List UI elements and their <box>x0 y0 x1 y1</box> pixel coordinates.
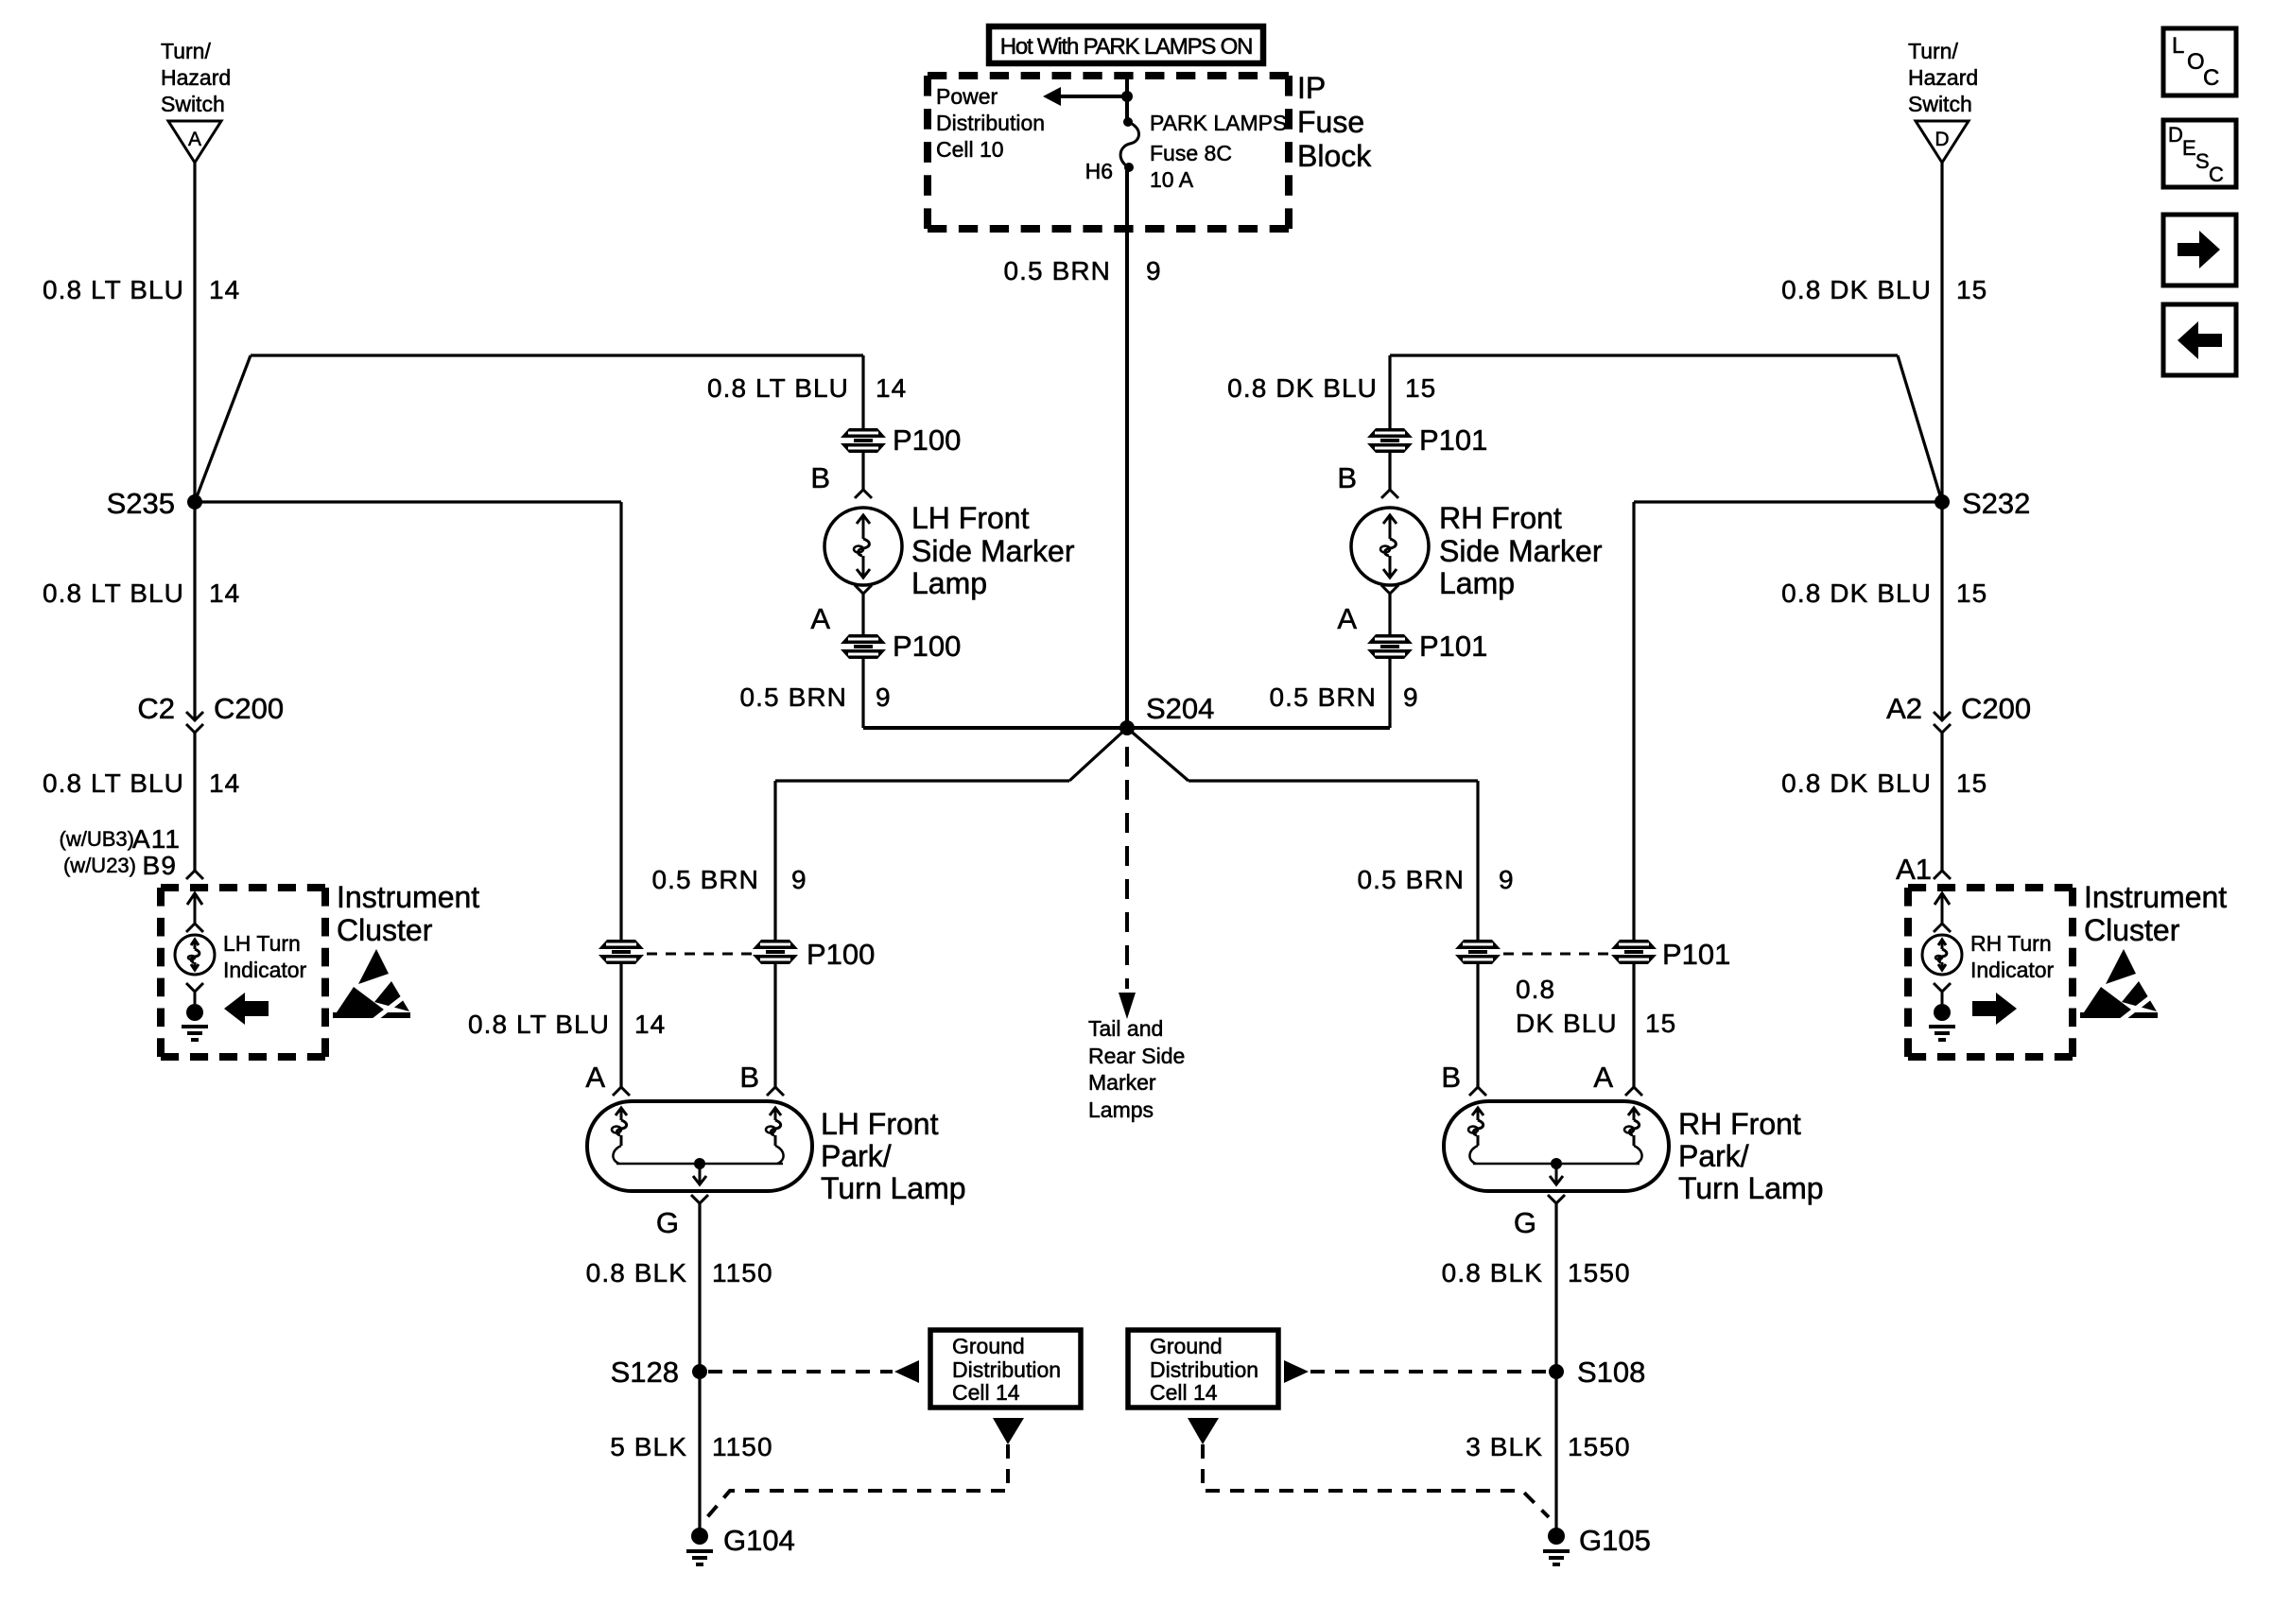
svg-text:15: 15 <box>1645 1009 1676 1038</box>
terminal chevron below indicator (left) <box>186 983 203 992</box>
svg-text:Fuse: Fuse <box>1297 105 1364 139</box>
S128 label <box>611 1356 679 1389</box>
svg-text:0.5 BRN: 0.5 BRN <box>1003 256 1111 285</box>
wire to cluster ground (left) <box>194 992 197 1004</box>
svg-text:G: G <box>656 1206 679 1239</box>
svg-text:Park/: Park/ <box>1678 1139 1749 1173</box>
dashed link: S128 to ground distribution <box>708 1370 893 1373</box>
svg-text:S108: S108 <box>1577 1356 1645 1389</box>
RH park/turn common bus <box>1473 1158 1640 1169</box>
svg-text:Turn/: Turn/ <box>1908 39 1958 63</box>
svg-text:G104: G104 <box>723 1524 795 1557</box>
wire to cluster ground (right) <box>1941 992 1944 1004</box>
svg-text:(w/U23): (w/U23) <box>63 854 136 877</box>
ground G104 <box>686 1528 713 1564</box>
pin chevron A (LH marker) <box>855 585 872 594</box>
splice S108 <box>1549 1364 1564 1379</box>
pin chevron A (LH park/turn) <box>613 1087 630 1096</box>
LH park/turn common bus <box>616 1158 783 1169</box>
svg-text:0.8 DK BLU: 0.8 DK BLU <box>1781 769 1932 798</box>
wire: fuse-block feed from top <box>1125 76 1129 122</box>
RH Front Park/Turn Lamp name <box>1678 1107 1824 1205</box>
svg-text:9: 9 <box>1146 256 1162 285</box>
svg-text:Park/: Park/ <box>821 1139 892 1173</box>
svg-text:1150: 1150 <box>712 1258 773 1287</box>
svg-text:1550: 1550 <box>1568 1258 1631 1287</box>
svg-text:C2: C2 <box>137 692 175 725</box>
lamp: LH Front Park/Turn (housing) <box>587 1101 812 1191</box>
connector C200 pin A2 (right) <box>1934 712 1951 733</box>
wire: P100 to LH park/turn B <box>773 963 776 1087</box>
svg-text:Cell 14: Cell 14 <box>952 1380 1020 1405</box>
S108 label <box>1577 1356 1645 1389</box>
svg-text:9: 9 <box>1403 682 1419 712</box>
P100 label (bottom) <box>893 630 961 663</box>
label: (w/UB3) A11 <box>60 824 181 854</box>
svg-text:1150: 1150 <box>712 1432 773 1461</box>
wire: 0.8 LT BLU 14 below S235 <box>193 502 196 720</box>
wire: S232 left branch to RH park/turn <box>1634 502 1942 940</box>
IP fuse block dashed boundary <box>928 76 1289 229</box>
svg-text:Lamp: Lamp <box>911 566 987 600</box>
svg-text:P100: P100 <box>893 423 961 457</box>
svg-text:0.8 LT BLU: 0.8 LT BLU <box>43 769 184 798</box>
legend box left-arrow <box>2163 304 2236 375</box>
pin G label (RH park/turn) <box>1514 1206 1536 1239</box>
svg-text:Switch: Switch <box>161 92 225 116</box>
wire: 0.8 LT BLU 14 switch A to S235 <box>193 163 196 502</box>
svg-text:1550: 1550 <box>1568 1432 1631 1461</box>
wire: S204 diagonal right <box>1127 728 1189 781</box>
G104 label <box>723 1524 795 1557</box>
RH Front Side Marker Lamp name <box>1439 501 1603 600</box>
svg-text:Side Marker: Side Marker <box>911 534 1075 568</box>
svg-text:S204: S204 <box>1146 692 1214 725</box>
dashed route: left ground box to G104 <box>707 1444 1008 1517</box>
svg-text:Ground: Ground <box>952 1334 1025 1358</box>
svg-text:10 A: 10 A <box>1150 167 1194 192</box>
splice S204 <box>1119 720 1135 735</box>
svg-text:Block: Block <box>1297 139 1372 173</box>
svg-text:Lamps: Lamps <box>1088 1097 1154 1122</box>
wire: 0.8 BLK 1550 RH park/turn G to S108 to G105 <box>1554 1203 1557 1531</box>
svg-text:Cluster: Cluster <box>337 913 433 947</box>
wire: P101 to RH park/turn A <box>1632 963 1635 1087</box>
svg-text:3 BLK: 3 BLK <box>1466 1432 1543 1461</box>
svg-text:PARK LAMPS: PARK LAMPS <box>1150 111 1287 135</box>
terminal chevron (left cluster) <box>186 924 203 932</box>
arrow: right turn direction <box>1972 993 2017 1025</box>
pin chevron G (LH park/turn) <box>691 1195 708 1203</box>
dashed wire: S204 to tail/rear lamps <box>1125 747 1129 989</box>
svg-text:14: 14 <box>634 1010 666 1039</box>
svg-text:P100: P100 <box>893 630 961 663</box>
svg-text:Cluster: Cluster <box>2084 913 2180 947</box>
label: 0.5 BRN 9 (LH marker) <box>739 682 891 712</box>
svg-text:A2: A2 <box>1886 692 1922 725</box>
LH instrument cluster dashed box <box>161 888 325 1057</box>
dashed route: right ground box to G105 <box>1203 1444 1549 1517</box>
ground dot (right cluster) <box>1934 1004 1951 1021</box>
wire: DK BLU top rail to RH side marker <box>1390 355 1898 430</box>
ground symbol (left cluster) <box>182 1027 208 1040</box>
svg-text:Side Marker: Side Marker <box>1439 534 1603 568</box>
svg-text:Turn/: Turn/ <box>161 39 211 63</box>
svg-text:C: C <box>2203 65 2219 91</box>
svg-text:Instrument: Instrument <box>337 880 479 914</box>
svg-text:0.8 LT BLU: 0.8 LT BLU <box>468 1010 610 1039</box>
pin chevron into LH instrument cluster <box>186 871 203 879</box>
S204 label <box>1146 692 1214 725</box>
connector triangle D (turn/hazard switch) <box>1916 121 1969 163</box>
svg-text:A: A <box>1337 602 1357 635</box>
RH park/turn bulb B filament <box>1468 1108 1484 1164</box>
svg-text:LH Front: LH Front <box>821 1107 939 1141</box>
ground distribution box (left) <box>930 1330 1081 1408</box>
svg-text:A: A <box>188 129 201 150</box>
svg-text:15: 15 <box>1405 373 1436 403</box>
label: 0.5 BRN 9 (RH park) <box>1357 865 1514 894</box>
pin chevron B (LH park/turn) <box>767 1087 784 1096</box>
svg-text:D: D <box>2168 123 2183 147</box>
RH Turn/Hazard Switch name <box>1908 39 1978 116</box>
svg-text:P101: P101 <box>1419 423 1487 457</box>
svg-text:Distribution: Distribution <box>1150 1357 1258 1382</box>
wire: pin A to P101 <box>1388 594 1391 635</box>
svg-text:B: B <box>1337 461 1357 494</box>
RH park/turn bulb A filament <box>1624 1108 1642 1164</box>
arrow: to tail and rear side marker lamps <box>1119 993 1136 1019</box>
IP Fuse Block name <box>1297 71 1372 173</box>
wire: LT BLU top rail to LH side marker <box>251 355 863 430</box>
connector C200 pin C2 (left) <box>186 712 203 733</box>
svg-text:LH Front: LH Front <box>911 501 1030 535</box>
dashed link: ground distribution to S108 <box>1310 1370 1548 1373</box>
arrow: left turn direction <box>224 993 269 1025</box>
wire: BRN to RH park/turn B <box>1189 781 1478 940</box>
pin chevron A (RH marker) <box>1381 585 1398 594</box>
wire: 0.8 DK BLU 15 below C200 (right) <box>1940 733 1943 871</box>
legend box right-arrow <box>2163 215 2236 285</box>
pin chevron B (LH marker) <box>855 490 872 498</box>
svg-text:G: G <box>1514 1206 1536 1239</box>
svg-text:14: 14 <box>876 373 907 403</box>
arrowhead toward S108 <box>1284 1360 1309 1383</box>
fuse F: PARK LAMPS Fuse 8C 10A <box>1120 117 1138 172</box>
svg-text:15: 15 <box>1956 275 1987 304</box>
wire: 0.8 DK BLU 15 switch D to S232 <box>1940 163 1943 502</box>
label: A1 <box>1896 853 1932 886</box>
svg-text:H6: H6 <box>1085 159 1113 183</box>
wire: P100 to LH park/turn A <box>619 963 622 1087</box>
label: C2 C200 <box>137 692 284 725</box>
svg-text:Lamp: Lamp <box>1439 566 1515 600</box>
svg-text:0.5 BRN: 0.5 BRN <box>651 865 759 894</box>
svg-text:Distribution: Distribution <box>936 111 1045 135</box>
svg-text:S128: S128 <box>611 1356 679 1389</box>
connector P100 (side marker B, top) <box>841 428 886 453</box>
label: 0.8 LT BLU 14 (park/turn A wire) <box>468 1010 666 1039</box>
svg-text:Fuse 8C: Fuse 8C <box>1150 141 1232 165</box>
label: 0.8 DK BLU 15 (upper right) <box>1781 275 1987 304</box>
LH park/turn bulb A filament <box>612 1108 627 1164</box>
svg-text:9: 9 <box>1499 865 1515 894</box>
svg-text:0.8 DK BLU: 0.8 DK BLU <box>1227 373 1378 403</box>
svg-text:0.8 LT BLU: 0.8 LT BLU <box>43 579 184 608</box>
svg-text:0.8 LT BLU: 0.8 LT BLU <box>43 275 184 304</box>
svg-text:Tail and: Tail and <box>1088 1016 1163 1041</box>
LH park/turn ground lead arrow <box>693 1164 706 1184</box>
label: 0.8 DK BLU 15 (park/turn A wire) <box>1516 975 1676 1038</box>
arrow below left ground box <box>993 1418 1024 1444</box>
svg-text:5 BLK: 5 BLK <box>610 1432 687 1461</box>
svg-text:C: C <box>2209 163 2224 186</box>
svg-text:Hazard: Hazard <box>161 65 231 90</box>
LH park/turn bulb B filament <box>766 1108 784 1164</box>
arrow below right ground box <box>1188 1418 1219 1444</box>
P100 label (top) <box>893 423 961 457</box>
ground distribution box (right) <box>1128 1330 1278 1408</box>
P100 label (park/turn row) <box>807 938 875 971</box>
pin chevron B (RH park/turn) <box>1469 1087 1486 1096</box>
svg-text:Indicator: Indicator <box>1970 958 2055 982</box>
fuse value label PARK LAMPS Fuse 8C 10 A <box>1150 111 1287 192</box>
pin H6 label <box>1085 159 1113 183</box>
svg-text:0.5 BRN: 0.5 BRN <box>739 682 847 712</box>
svg-text:RH Front: RH Front <box>1678 1107 1801 1141</box>
pin A label (LH park/turn) <box>585 1061 605 1094</box>
wire: pin A to P100 <box>861 594 864 635</box>
svg-text:RH Front: RH Front <box>1439 501 1562 535</box>
svg-text:D: D <box>1935 129 1949 150</box>
svg-text:Power: Power <box>936 84 998 109</box>
pin B label (RH park/turn) <box>1441 1061 1461 1094</box>
label: 0.8 DK BLU 15 (top rail) <box>1227 373 1436 403</box>
svg-text:C200: C200 <box>1961 692 2031 725</box>
svg-text:Switch: Switch <box>1908 92 1972 116</box>
Instrument Cluster name (right) <box>2084 880 2227 947</box>
svg-text:O: O <box>2187 49 2205 75</box>
svg-text:A: A <box>810 602 830 635</box>
wire: P100 to pin B <box>861 453 864 490</box>
svg-text:0.8 BLK: 0.8 BLK <box>586 1258 687 1287</box>
svg-text:A11: A11 <box>132 824 181 854</box>
pin A label (RH park/turn) <box>1593 1061 1613 1094</box>
label: 0.5 BRN 9 (main feed) <box>1003 256 1161 285</box>
pin chevron B (RH marker) <box>1381 490 1398 498</box>
svg-text:C200: C200 <box>214 692 284 725</box>
lamp: RH Front Park/Turn (housing) <box>1444 1101 1669 1191</box>
pin chevron A (RH park/turn) <box>1625 1087 1642 1096</box>
ground G105 <box>1543 1528 1570 1564</box>
wire: 0.8 LT BLU 14 below C200 <box>193 733 196 871</box>
lamp: LH Front Side Marker <box>824 508 902 585</box>
pin arrow into cluster (right) <box>1935 893 1950 924</box>
label: 0.8 LT BLU 14 (lower left) <box>43 769 240 798</box>
pin B label (LH park/turn) <box>739 1061 759 1094</box>
svg-text:B: B <box>739 1061 759 1094</box>
S232 label <box>1962 487 2030 520</box>
G105 label <box>1579 1524 1651 1557</box>
svg-text:15: 15 <box>1956 579 1987 608</box>
arrow: to Power Distribution (left) <box>1043 87 1127 106</box>
lamp: LH Turn Indicator <box>175 935 215 975</box>
pin G label (LH park/turn) <box>656 1206 679 1239</box>
connector P101 (side marker A, bottom) <box>1367 634 1413 659</box>
connector P101 (side marker B, top) <box>1367 428 1413 453</box>
label: (w/U23) B9 <box>63 851 177 880</box>
svg-text:Marker: Marker <box>1088 1070 1156 1095</box>
Instrument Cluster name (left) <box>337 880 479 947</box>
svg-text:A1: A1 <box>1896 853 1932 886</box>
wire: S204 diagonal left <box>1069 728 1127 781</box>
dashed link between P101 halves <box>1503 953 1611 956</box>
svg-text:Cell 14: Cell 14 <box>1150 1380 1218 1405</box>
label: 0.5 BRN 9 (LH park) <box>651 865 807 894</box>
svg-text:9: 9 <box>876 682 892 712</box>
wire: 0.5 BRN 9 from fuse to S204 <box>1125 167 1129 728</box>
label: 0.8 LT BLU 14 (upper left) <box>43 275 240 304</box>
svg-text:Hot With PARK LAMPS ON: Hot With PARK LAMPS ON <box>1000 34 1253 60</box>
label: 0.8 LT BLU 14 (mid left) <box>43 579 240 608</box>
svg-text:G105: G105 <box>1579 1524 1651 1557</box>
pin B label (LH marker) <box>810 461 830 494</box>
wire: P101 to RH park/turn B <box>1476 963 1479 1087</box>
svg-text:0.8 DK BLU: 0.8 DK BLU <box>1781 275 1932 304</box>
svg-text:IP: IP <box>1297 71 1326 105</box>
label: A2 C200 <box>1886 692 2031 725</box>
node: junction at power distribution takeoff <box>1121 91 1133 102</box>
svg-text:0.5 BRN: 0.5 BRN <box>1357 865 1465 894</box>
RH Turn Indicator label <box>1970 931 2055 982</box>
P101 label (top) <box>1419 423 1487 457</box>
pin A label (RH marker) <box>1337 602 1357 635</box>
svg-text:A: A <box>1593 1061 1613 1094</box>
label: 0.8 BLK 1150 <box>586 1258 773 1287</box>
label: 3 BLK 1550 <box>1466 1432 1630 1461</box>
svg-text:Hazard: Hazard <box>1908 65 1978 90</box>
svg-text:LH Turn: LH Turn <box>223 931 301 956</box>
svg-text:Distribution: Distribution <box>952 1357 1061 1382</box>
svg-text:B: B <box>1441 1061 1461 1094</box>
svg-text:0.8 LT BLU: 0.8 LT BLU <box>707 373 849 403</box>
splice S235 <box>187 494 202 510</box>
wire: P101 to pin B <box>1388 453 1391 490</box>
svg-text:RH Turn: RH Turn <box>1970 931 2052 956</box>
label: 0.8 DK BLU 15 (lower right) <box>1781 769 1987 798</box>
label: 0.5 BRN 9 (RH marker) <box>1269 682 1418 712</box>
LH Turn Indicator label <box>223 931 307 982</box>
pin arrow into cluster (left) <box>187 893 202 924</box>
svg-text:0.8 DK BLU: 0.8 DK BLU <box>1781 579 1932 608</box>
svg-text:Instrument: Instrument <box>2084 880 2227 914</box>
svg-text:Rear Side: Rear Side <box>1088 1044 1185 1068</box>
label: 0.8 DK BLU 15 (mid right) <box>1781 579 1987 608</box>
dashed link between P100 halves <box>647 953 755 956</box>
svg-text:(w/UB3): (w/UB3) <box>60 827 134 851</box>
svg-text:15: 15 <box>1956 769 1987 798</box>
svg-text:S235: S235 <box>107 487 175 520</box>
svg-text:B9: B9 <box>143 851 177 880</box>
svg-text:Cell 10: Cell 10 <box>936 137 1004 162</box>
ESD symbol (right cluster) <box>2080 949 2161 1023</box>
svg-text:S: S <box>2195 149 2210 173</box>
wire: 0.8 BLK 1150 LH park/turn G to S128 to G104 <box>698 1203 701 1531</box>
wire: S235 right branch to LH park/turn <box>195 502 621 940</box>
svg-text:B: B <box>810 461 830 494</box>
svg-text:P101: P101 <box>1419 630 1487 663</box>
wire: RH marker A to S204 <box>1127 659 1390 728</box>
svg-text:Ground: Ground <box>1150 1334 1223 1358</box>
pin chevron into RH instrument cluster <box>1934 871 1951 879</box>
LH Turn/Hazard Switch name <box>161 39 231 116</box>
svg-text:P100: P100 <box>807 938 875 971</box>
RH park/turn ground lead arrow <box>1550 1164 1563 1184</box>
svg-text:Turn Lamp: Turn Lamp <box>1678 1171 1824 1205</box>
pin A label (LH marker) <box>810 602 830 635</box>
Power Distribution Cell 10 label <box>936 84 1045 162</box>
terminal chevron (right cluster) <box>1934 924 1951 932</box>
Tail and Rear Side Marker Lamps label <box>1088 1016 1185 1122</box>
S235 label <box>107 487 175 520</box>
svg-text:14: 14 <box>209 275 240 304</box>
splice S128 <box>692 1364 707 1379</box>
svg-text:P101: P101 <box>1662 938 1730 971</box>
connector P101 half (RH park/turn B) <box>1455 940 1501 964</box>
wire: S232 up-left diagonal to top rail <box>1898 355 1942 502</box>
wire: LH marker A to S204 <box>863 659 1127 728</box>
label: 0.8 BLK 1550 <box>1442 1258 1631 1287</box>
legend box DESC <box>2163 120 2236 187</box>
terminal chevron below indicator (right) <box>1934 983 1951 992</box>
LH Front Park/Turn Lamp name <box>821 1107 966 1205</box>
svg-text:14: 14 <box>209 769 240 798</box>
arrowhead toward S128 <box>894 1360 919 1383</box>
pin chevron G (RH park/turn) <box>1548 1195 1565 1203</box>
pin B label (RH marker) <box>1337 461 1357 494</box>
svg-text:0.8: 0.8 <box>1516 975 1555 1004</box>
connector P101 half (RH park/turn A) <box>1611 940 1657 964</box>
P101 label (bottom) <box>1419 630 1487 663</box>
power label box: Hot With PARK LAMPS ON <box>989 26 1263 63</box>
wire: BRN to LH park/turn B <box>775 781 1069 940</box>
svg-text:DK BLU: DK BLU <box>1516 1009 1618 1038</box>
svg-text:14: 14 <box>209 579 240 608</box>
svg-text:Turn Lamp: Turn Lamp <box>821 1171 966 1205</box>
ESD symbol (left cluster) <box>333 949 414 1023</box>
legend box LOC <box>2163 28 2236 95</box>
svg-text:E: E <box>2182 136 2196 160</box>
svg-text:Indicator: Indicator <box>223 958 307 982</box>
label: 5 BLK 1150 <box>610 1432 772 1461</box>
connector P100 half (LH park/turn A) <box>599 940 644 964</box>
P101 label (park/turn row) <box>1662 938 1730 971</box>
lamp: RH Front Side Marker <box>1351 508 1429 585</box>
wire: S235 up-right diagonal to top rail <box>195 355 251 502</box>
LH Front Side Marker Lamp name <box>911 501 1075 600</box>
svg-text:A: A <box>585 1061 605 1094</box>
connector P100 half (LH park/turn B) <box>753 940 798 964</box>
connector P100 (side marker A, bottom) <box>841 634 886 659</box>
svg-text:9: 9 <box>791 865 807 894</box>
svg-text:0.5 BRN: 0.5 BRN <box>1269 682 1377 712</box>
lamp: RH Turn Indicator <box>1922 935 1962 975</box>
RH instrument cluster dashed box <box>1908 888 2073 1057</box>
svg-text:S232: S232 <box>1962 487 2030 520</box>
ground symbol (right cluster) <box>1929 1027 1955 1040</box>
label: 0.8 LT BLU 14 (top rail) <box>707 373 907 403</box>
connector triangle A (turn/hazard switch) <box>168 121 221 163</box>
